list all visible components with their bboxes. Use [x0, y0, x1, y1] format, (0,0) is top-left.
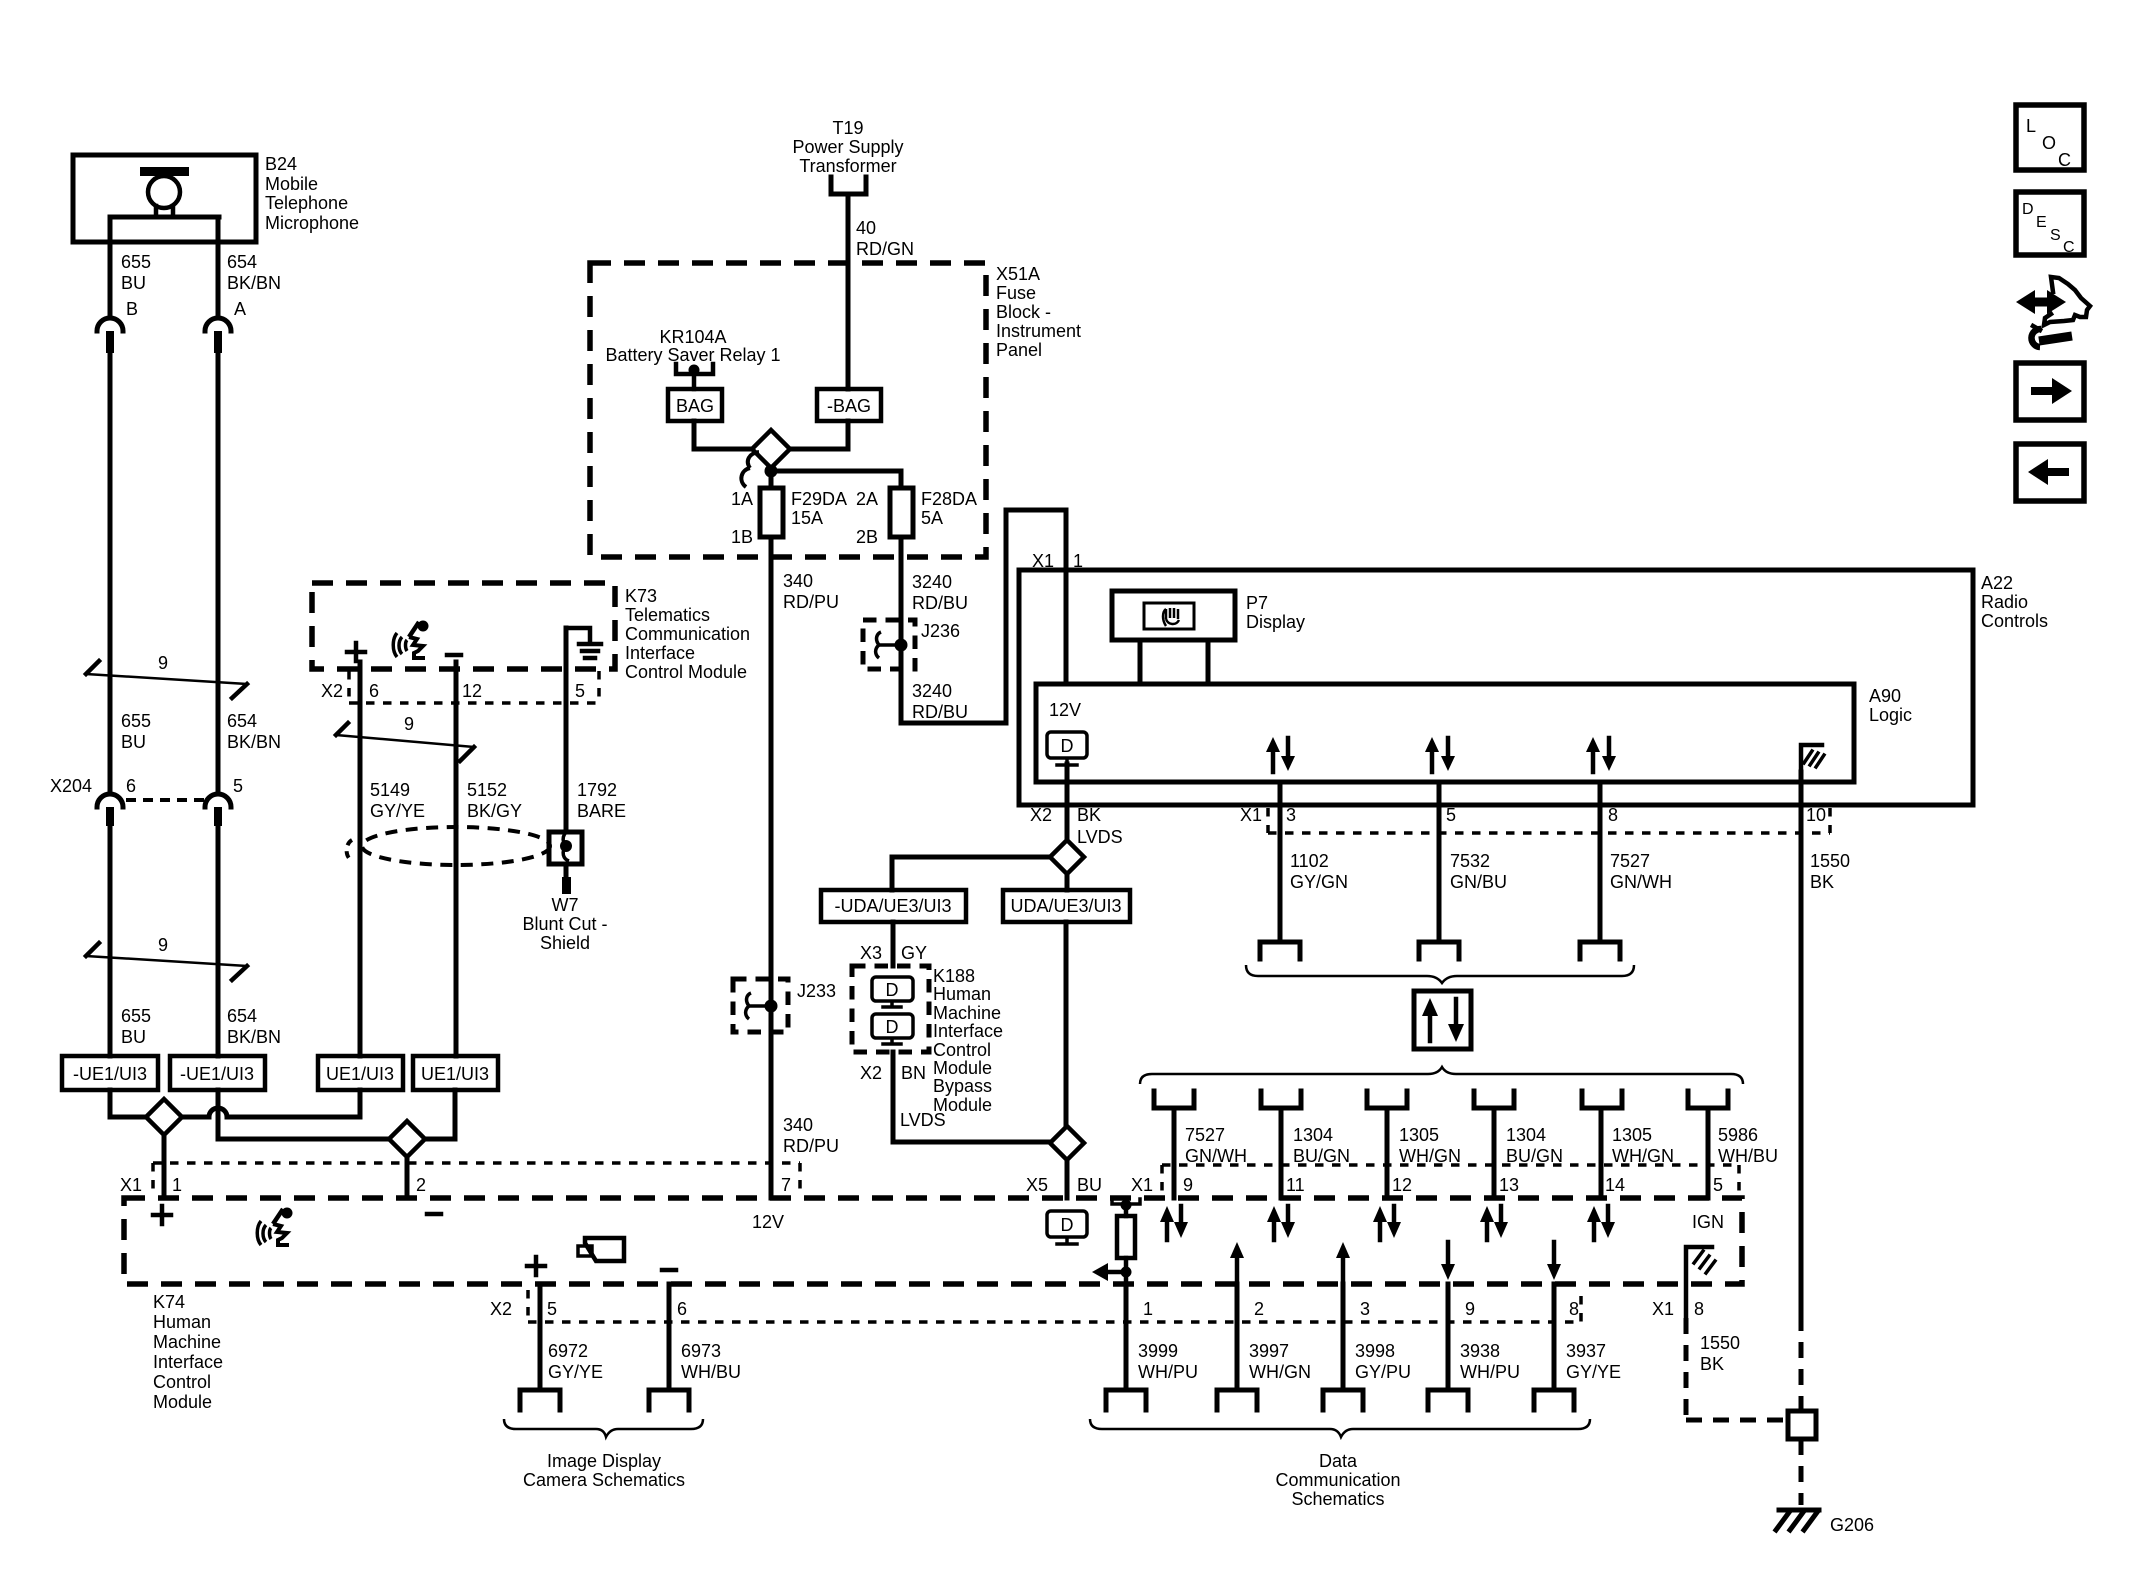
svg-text:7532: 7532	[1450, 851, 1490, 871]
svg-text:9: 9	[1183, 1175, 1193, 1195]
svg-text:Interface: Interface	[153, 1352, 223, 1372]
svg-text:C: C	[2063, 239, 2075, 256]
net -UE1/UI3 box 2	[170, 1056, 265, 1090]
splice diamond 2	[389, 1121, 425, 1157]
blunt cut stub	[562, 877, 571, 894]
svg-text:RD/BU: RD/BU	[912, 593, 968, 613]
label Image Display Camera Schematics	[523, 1451, 685, 1490]
K74 arrows pin 14	[1587, 1206, 1615, 1240]
wire 3999 WH/PU	[1124, 1284, 1129, 1390]
svg-text:340: 340	[783, 571, 813, 591]
label 6973 WH/BU	[681, 1341, 741, 1382]
svg-text:1305: 1305	[1399, 1125, 1439, 1145]
svg-text:5: 5	[575, 681, 585, 701]
svg-text:P7: P7	[1246, 593, 1268, 613]
label 40 RD/GN	[856, 218, 914, 259]
svg-text:BK/BN: BK/BN	[227, 1027, 281, 1047]
terminal 3998	[1323, 1390, 1363, 1410]
label 3999 WH/PU	[1138, 1341, 1198, 1382]
label 3240 RD/BU lower	[912, 681, 968, 722]
terminal 3938	[1428, 1390, 1468, 1410]
svg-text:B: B	[126, 299, 138, 319]
splice diamond 1	[146, 1099, 182, 1135]
svg-text:K188: K188	[933, 966, 975, 986]
label 3998 GY/PU	[1355, 1341, 1411, 1382]
svg-text:7: 7	[781, 1175, 791, 1195]
wire 1305 WH/GN col a	[1385, 1108, 1390, 1198]
svg-text:BN: BN	[901, 1063, 926, 1083]
net UE1/UI3 box 4	[413, 1056, 498, 1090]
svg-text:RD/PU: RD/PU	[783, 592, 839, 612]
wire A90 pin 8	[1598, 782, 1603, 942]
splice box S-connector	[1788, 1411, 1816, 1439]
terminal pin 8	[1580, 942, 1620, 959]
connector X2 camera labels	[490, 1299, 687, 1319]
connector X204 pin 5	[205, 794, 231, 826]
label 7527 GN/WH col	[1185, 1125, 1247, 1166]
label relay KR104A Battery Saver Relay 1	[605, 327, 780, 365]
svg-text:C: C	[2058, 150, 2071, 170]
svg-text:F28DA: F28DA	[921, 489, 977, 509]
wire 1304 BU/GN col b	[1492, 1108, 1497, 1198]
wire 1550 BK dashed right	[1799, 1315, 1804, 1411]
terminal col 5986	[1688, 1091, 1728, 1108]
svg-text:1: 1	[1143, 1299, 1153, 1319]
svg-text:12: 12	[1392, 1175, 1412, 1195]
data bus arrow box	[1414, 991, 1471, 1049]
svg-text:GY/YE: GY/YE	[370, 801, 425, 821]
K74 arrow up pin 3	[1336, 1242, 1350, 1284]
svg-text:5: 5	[1446, 805, 1456, 825]
svg-text:3240: 3240	[912, 681, 952, 701]
svg-text:D: D	[1061, 1215, 1074, 1235]
svg-text:5: 5	[233, 776, 243, 796]
connector X204 mating line	[126, 798, 204, 802]
svg-text:12V: 12V	[752, 1212, 784, 1232]
wire 7527 GN/WH col	[1172, 1108, 1177, 1198]
svg-text:Shield: Shield	[540, 933, 590, 953]
svg-text:6: 6	[369, 681, 379, 701]
svg-text:655: 655	[121, 711, 151, 731]
connector X1 pin labels A22	[1240, 805, 1826, 825]
svg-text:9: 9	[158, 653, 168, 673]
connector X1 strip of K74 left	[153, 1163, 800, 1196]
svg-text:RD/BU: RD/BU	[912, 702, 968, 722]
junction dot fuse feed	[765, 465, 778, 478]
svg-text:8: 8	[1694, 1299, 1704, 1319]
A90 internal ground	[1801, 745, 1824, 772]
svg-text:BK: BK	[1077, 805, 1101, 825]
radio A22 box	[1019, 570, 1973, 805]
svg-text:1A: 1A	[731, 489, 753, 509]
svg-text:RD/PU: RD/PU	[783, 1136, 839, 1156]
net BAG box	[668, 389, 722, 421]
K188 display D icon 2	[872, 1014, 913, 1044]
wire 655 BU segment	[108, 353, 113, 794]
K74 camera plus terminal	[527, 1257, 545, 1275]
label 1792 BARE	[577, 780, 626, 821]
svg-text:Control: Control	[933, 1040, 991, 1060]
wire 5986 WH/BU col	[1706, 1108, 1711, 1198]
terminal col 1305b	[1582, 1091, 1622, 1108]
fuse block X51A dashed box	[590, 263, 986, 557]
svg-text:5: 5	[547, 1299, 557, 1319]
module K74 dashed box	[124, 1198, 1742, 1284]
svg-text:Module: Module	[153, 1392, 212, 1412]
forward arrow button	[2016, 363, 2084, 420]
svg-text:-BAG: -BAG	[827, 396, 871, 416]
splice diamond fuse feed	[752, 430, 790, 468]
K74 arrows pin 9	[1160, 1206, 1188, 1240]
svg-text:X2: X2	[490, 1299, 512, 1319]
wire BAG to splice	[694, 421, 752, 449]
svg-text:GN/BU: GN/BU	[1450, 872, 1507, 892]
svg-text:GY: GY	[901, 943, 927, 963]
svg-text:WH/GN: WH/GN	[1612, 1146, 1674, 1166]
wire 1304 BU/GN col a	[1279, 1108, 1284, 1198]
label K73 Telematics Communication Interface Control Module	[625, 586, 750, 682]
svg-text:GY/GN: GY/GN	[1290, 872, 1348, 892]
K74 microphone icon	[257, 1208, 292, 1246]
label 340 RD/PU lower	[783, 1115, 839, 1156]
svg-text:BK: BK	[1810, 872, 1834, 892]
transformer T19 label	[792, 118, 903, 176]
wire 3937 GY/YE	[1552, 1284, 1557, 1390]
microphone B24	[73, 155, 256, 242]
net -UDA/UE3/UI3 box	[821, 890, 966, 922]
svg-text:5152: 5152	[467, 780, 507, 800]
svg-text:WH/GN: WH/GN	[1249, 1362, 1311, 1382]
wire 3938 WH/PU	[1446, 1284, 1451, 1390]
connector X1 strip of A22	[1268, 808, 1830, 833]
blunt cut W7 box	[549, 831, 582, 864]
svg-text:BK: BK	[1700, 1354, 1724, 1374]
svg-text:X1: X1	[120, 1175, 142, 1195]
svg-text:10: 10	[1806, 805, 1826, 825]
svg-text:9: 9	[158, 935, 168, 955]
connector X2 BN labels	[860, 1063, 926, 1083]
wire 40 RD/GN	[846, 194, 851, 389]
wire 3998 GY/PU	[1341, 1284, 1346, 1390]
svg-text:3: 3	[1286, 805, 1296, 825]
wire 5149 GY/YE	[358, 662, 363, 1056]
svg-text:BU: BU	[121, 732, 146, 752]
svg-text:Transformer: Transformer	[799, 156, 896, 176]
bypass module K188 dashed box	[852, 966, 929, 1052]
twisted pair marker 9 K73	[336, 714, 474, 761]
svg-text:3: 3	[1360, 1299, 1370, 1319]
back arrow button	[2016, 444, 2084, 501]
K74 minus terminal	[427, 1212, 441, 1217]
label K188 Human Machine Interface Control Module Bypass Module	[933, 966, 1003, 1115]
svg-text:654: 654	[227, 252, 257, 272]
shield ellipse	[347, 827, 550, 865]
pin A connector	[205, 318, 231, 353]
svg-text:X3: X3	[860, 943, 882, 963]
svg-text:Mobile: Mobile	[265, 174, 318, 194]
diagnostic car-wrench icon	[2016, 277, 2090, 347]
fuse F29DA 15A	[760, 488, 783, 537]
label A90 Logic	[1869, 686, 1912, 725]
svg-text:D: D	[2022, 201, 2034, 218]
svg-text:X204: X204	[50, 776, 92, 796]
wire camera pin 6	[667, 1284, 672, 1390]
terminal camera 5	[520, 1390, 560, 1410]
label 3937 GY/YE	[1566, 1341, 1621, 1382]
wire UDA box to diamond lower	[1064, 922, 1069, 1126]
wire 655 BU lower	[108, 826, 113, 1056]
svg-text:BK/GY: BK/GY	[467, 801, 522, 821]
wire 3997 WH/GN	[1235, 1284, 1240, 1390]
svg-text:LVDS: LVDS	[900, 1110, 946, 1130]
svg-text:Interface: Interface	[625, 643, 695, 663]
K188 display D icon 1	[872, 977, 913, 1007]
K74 IGN ground	[1686, 1247, 1715, 1318]
svg-text:-UE1/UI3: -UE1/UI3	[73, 1064, 147, 1084]
svg-text:3937: 3937	[1566, 1341, 1606, 1361]
svg-text:Telematics: Telematics	[625, 605, 710, 625]
svg-text:Schematics: Schematics	[1291, 1489, 1384, 1509]
wire diamond1 to K74 pin X1-1	[162, 1135, 167, 1198]
display D icon at X5	[1047, 1211, 1087, 1244]
label A22 Radio Controls	[1981, 573, 2048, 631]
LVDS splice diamond lower	[1050, 1126, 1084, 1160]
label 7527 GN/WH	[1610, 851, 1672, 892]
label X51A Fuse Block - Instrument Panel	[996, 264, 1081, 360]
svg-text:WH/PU: WH/PU	[1460, 1362, 1520, 1382]
svg-text:14: 14	[1605, 1175, 1625, 1195]
K74 camera icon	[578, 1238, 624, 1261]
svg-text:2: 2	[1254, 1299, 1264, 1319]
label 1304 BU/GN col b	[1506, 1125, 1563, 1166]
svg-text:G206: G206	[1830, 1515, 1874, 1535]
svg-text:A90: A90	[1869, 686, 1901, 706]
svg-text:12V: 12V	[1049, 700, 1081, 720]
label 1304 BU/GN col a	[1293, 1125, 1350, 1166]
svg-text:K74: K74	[153, 1292, 185, 1312]
svg-text:9: 9	[404, 714, 414, 734]
net -BAG box	[817, 389, 881, 421]
svg-text:Human: Human	[153, 1312, 211, 1332]
wire -UDA to K188	[891, 922, 896, 966]
wire diamond to -UDA branch	[892, 857, 1050, 890]
label 654 BK/BN	[227, 252, 281, 293]
label 654 BK/BN bottom	[227, 1006, 281, 1047]
label 654 BK/BN mid	[227, 711, 281, 752]
svg-text:X1: X1	[1652, 1299, 1674, 1319]
wire K188 to LVDS corner	[893, 1052, 1050, 1142]
svg-text:X2: X2	[1030, 805, 1052, 825]
module K73 dashed box	[312, 583, 615, 669]
svg-text:K73: K73	[625, 586, 657, 606]
svg-text:WH/BU: WH/BU	[681, 1362, 741, 1382]
brace data communication	[1090, 1419, 1590, 1437]
wire A90 pin 3	[1278, 782, 1283, 942]
termination resistor on 3999	[1092, 1199, 1140, 1284]
svg-text:F29DA: F29DA	[791, 489, 847, 509]
svg-text:3938: 3938	[1460, 1341, 1500, 1361]
connector X2 labels	[321, 681, 585, 701]
svg-text:Module: Module	[933, 1058, 992, 1078]
svg-text:Power Supply: Power Supply	[792, 137, 903, 157]
svg-text:X1: X1	[1032, 551, 1054, 571]
wire 654 BK/BN segment	[216, 353, 221, 794]
inline connector J233	[733, 979, 836, 1032]
display D icon in A90	[1047, 732, 1087, 765]
svg-text:X51A: X51A	[996, 264, 1040, 284]
svg-text:655: 655	[121, 1006, 151, 1026]
K73 internal ground	[566, 628, 601, 658]
K74 arrows pin 11	[1267, 1206, 1295, 1240]
svg-text:654: 654	[227, 1006, 257, 1026]
brace lower data bus	[1140, 1067, 1743, 1084]
transformer T19 symbol	[831, 177, 866, 194]
svg-text:340: 340	[783, 1115, 813, 1135]
label F29DA 15A	[791, 489, 847, 528]
connector X1 left pin labels	[120, 1175, 791, 1195]
twisted pair marker 9	[86, 653, 247, 698]
label F28DA 5A	[921, 489, 977, 528]
label 1305 WH/GN col b	[1612, 1125, 1674, 1166]
wire 654 BK/BN from B24	[216, 218, 221, 318]
svg-text:A: A	[234, 299, 246, 319]
wire -BAG to splice	[790, 421, 848, 449]
terminal pin 5	[1419, 942, 1459, 959]
connector X2 BK labels	[1030, 805, 1101, 825]
svg-text:Communication: Communication	[625, 624, 750, 644]
brace camera schematics	[504, 1419, 703, 1437]
K74 arrow down pin 9	[1441, 1242, 1455, 1280]
LOC button	[2016, 105, 2084, 170]
svg-text:Logic: Logic	[1869, 705, 1912, 725]
brace upper data bus	[1246, 965, 1634, 983]
K74 camera minus terminal	[662, 1268, 676, 1273]
svg-text:BU: BU	[121, 1027, 146, 1047]
svg-text:BU/GN: BU/GN	[1506, 1146, 1563, 1166]
connector X1 8 labels	[1652, 1299, 1704, 1319]
svg-text:BK/BN: BK/BN	[227, 732, 281, 752]
svg-text:7527: 7527	[1185, 1125, 1225, 1145]
K73 minus terminal	[447, 653, 461, 658]
svg-text:D: D	[886, 980, 899, 1000]
wire 1550 BK dashed from IGN	[1686, 1318, 1788, 1420]
terminal 3997	[1217, 1390, 1257, 1410]
A90 data arrows pin 5	[1425, 737, 1455, 772]
svg-text:GY/YE: GY/YE	[1566, 1362, 1621, 1382]
pin B connector	[97, 318, 123, 353]
net UE1/UI3 box 3	[318, 1056, 403, 1090]
svg-text:GY/PU: GY/PU	[1355, 1362, 1411, 1382]
terminal 3937	[1534, 1390, 1574, 1410]
wire hop over 654	[209, 1108, 227, 1117]
label 1305 WH/GN col a	[1399, 1125, 1461, 1166]
svg-text:X2: X2	[321, 681, 343, 701]
svg-text:Bypass: Bypass	[933, 1076, 992, 1096]
svg-text:J233: J233	[797, 981, 836, 1001]
connector X5 BU labels	[1026, 1175, 1102, 1195]
svg-text:5149: 5149	[370, 780, 410, 800]
connector X1 pin 1 labels	[1032, 551, 1083, 571]
svg-text:GN/WH: GN/WH	[1185, 1146, 1247, 1166]
terminal pin 3	[1260, 942, 1300, 959]
svg-text:LVDS: LVDS	[1077, 827, 1123, 847]
svg-text:15A: 15A	[791, 508, 823, 528]
terminal col 1304a	[1261, 1091, 1301, 1108]
label 655 BU	[121, 252, 151, 293]
svg-text:Display: Display	[1246, 612, 1305, 632]
K74 plus terminal	[153, 1206, 171, 1224]
svg-text:X5: X5	[1026, 1175, 1048, 1195]
fuse F28DA pin labels	[856, 489, 878, 547]
label 5986 WH/BU col	[1718, 1125, 1778, 1166]
svg-text:Fuse: Fuse	[996, 283, 1036, 303]
svg-text:Control Module: Control Module	[625, 662, 747, 682]
K74 arrow up pin 2	[1230, 1242, 1244, 1284]
svg-text:7527: 7527	[1610, 851, 1650, 871]
svg-text:40: 40	[856, 218, 876, 238]
svg-text:5A: 5A	[921, 508, 943, 528]
svg-text:X1: X1	[1240, 805, 1262, 825]
svg-text:Image Display: Image Display	[547, 1451, 661, 1471]
svg-text:6: 6	[677, 1299, 687, 1319]
svg-text:1: 1	[172, 1175, 182, 1195]
K74 arrow down pin 8	[1547, 1242, 1561, 1280]
svg-text:GY/YE: GY/YE	[548, 1362, 603, 1382]
svg-text:W7: W7	[552, 895, 579, 915]
svg-text:Telephone: Telephone	[265, 193, 348, 213]
K73 microphone icon	[393, 621, 428, 659]
label W7 Blunt Cut - Shield	[522, 895, 607, 953]
DESC button	[2016, 192, 2084, 256]
svg-text:UE1/UI3: UE1/UI3	[421, 1064, 489, 1084]
wire 5152 BK/GY	[454, 662, 459, 1056]
label 5149 GY/YE	[370, 780, 425, 821]
label 7532 GN/BU	[1450, 851, 1507, 892]
svg-text:2B: 2B	[856, 527, 878, 547]
svg-text:A22: A22	[1981, 573, 2013, 593]
label 655 BU bottom	[121, 1006, 151, 1047]
svg-text:5986: 5986	[1718, 1125, 1758, 1145]
wire X2 BK to diamond	[1065, 764, 1070, 840]
wire diamond2 to box4	[425, 1090, 455, 1139]
svg-text:11: 11	[1286, 1175, 1305, 1195]
fuse F28DA 5A	[890, 488, 913, 537]
K74 arrows pin 12	[1373, 1206, 1401, 1240]
svg-text:-UDA/UE3/UI3: -UDA/UE3/UI3	[834, 896, 951, 916]
wire 1792 BARE	[564, 628, 569, 877]
label 3997 WH/GN	[1249, 1341, 1311, 1382]
svg-text:B24: B24	[265, 154, 297, 174]
inline connector J236	[863, 620, 960, 669]
svg-text:1550: 1550	[1700, 1333, 1740, 1353]
svg-text:13: 13	[1499, 1175, 1519, 1195]
svg-text:-UE1/UI3: -UE1/UI3	[180, 1064, 254, 1084]
svg-text:BU: BU	[1077, 1175, 1102, 1195]
svg-text:WH/BU: WH/BU	[1718, 1146, 1778, 1166]
A90 data arrows pin 8	[1586, 737, 1616, 772]
svg-text:5: 5	[1713, 1175, 1723, 1195]
svg-text:RD/GN: RD/GN	[856, 239, 914, 259]
label 6972 GY/YE	[548, 1341, 603, 1382]
label P7 Display	[1246, 593, 1305, 632]
connector X204 labels	[50, 776, 243, 796]
svg-text:Data: Data	[1319, 1451, 1358, 1471]
connector X2 strip of K73	[349, 671, 599, 703]
svg-text:Human: Human	[933, 984, 991, 1004]
label 1550 BK right	[1810, 851, 1850, 892]
connector strip bottom	[528, 1290, 1581, 1322]
wire diamond1 to box3 with hop	[182, 1090, 360, 1117]
